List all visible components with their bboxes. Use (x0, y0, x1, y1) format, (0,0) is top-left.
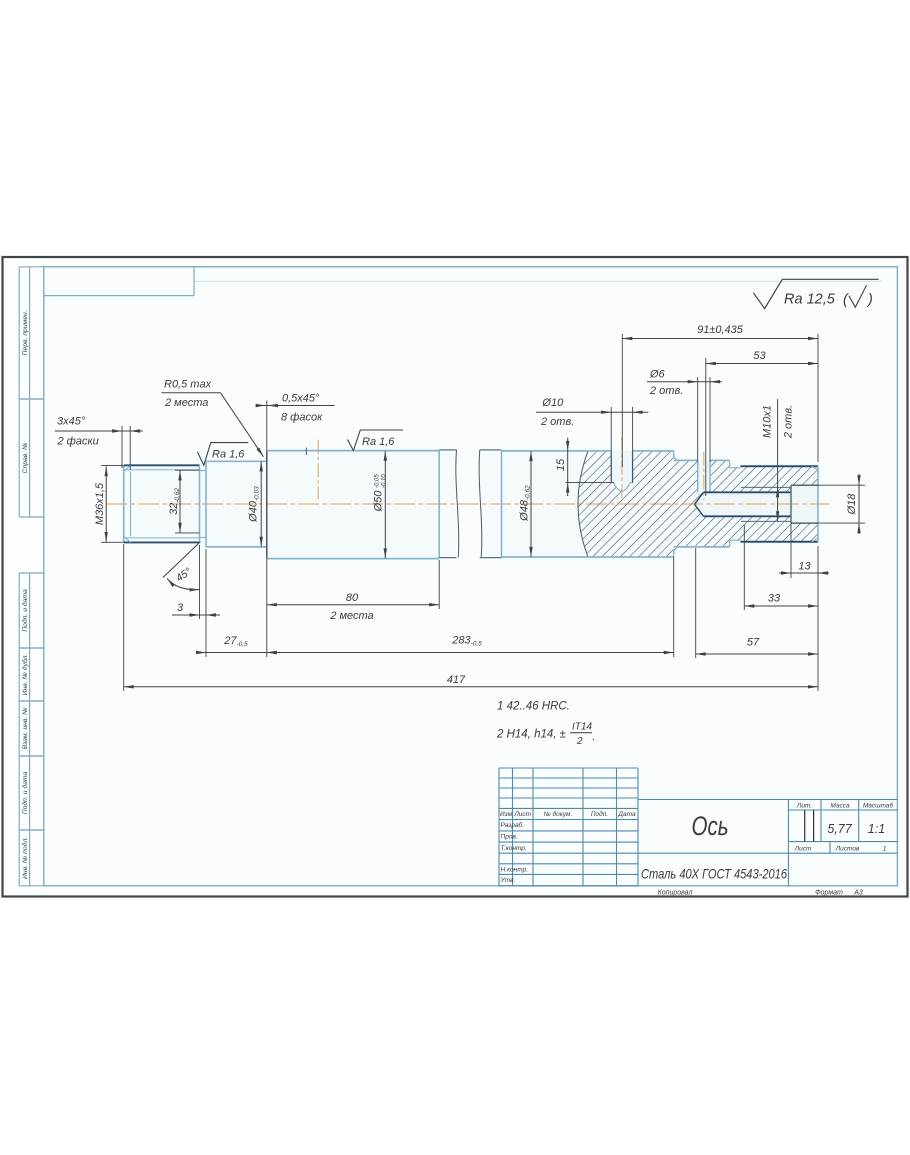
svg-text:Лит.: Лит. (796, 803, 812, 810)
svg-text:91±0,435: 91±0,435 (697, 324, 744, 336)
svg-text:2 отв.: 2 отв. (540, 416, 574, 428)
frame column box Подп. и дата (19, 573, 44, 648)
svg-text:Подп. и дата: Подп. и дата (21, 589, 29, 632)
Ø10 radial hole (611, 451, 632, 491)
svg-text:Изм: Изм (500, 811, 513, 818)
svg-text:Подп. и дата: Подп. и дата (21, 772, 29, 815)
dimension Ø48-0.62 (519, 451, 533, 557)
fillet note R0,5 max 2 места (162, 379, 265, 458)
svg-text:2 отв.: 2 отв. (783, 405, 795, 439)
svg-text:-0,10: -0,10 (381, 474, 387, 488)
svg-text:0,5х45°: 0,5х45° (282, 393, 320, 405)
dimension Ø50 -0.05/-0.10 (373, 451, 388, 559)
svg-text:2 отв.: 2 отв. (649, 385, 683, 397)
dimension M10x1 2 holes (762, 399, 795, 521)
Ø48 section (502, 451, 674, 557)
local section break boundary (578, 451, 588, 557)
svg-text:15: 15 (555, 458, 567, 471)
frame column box Справ. № (19, 399, 44, 517)
frame column box Инв. № подл. (19, 830, 44, 886)
top-left designation box (44, 267, 194, 296)
technical notes (496, 701, 596, 748)
Ø50 journal section (267, 451, 439, 559)
svg-text:Ra 1,6: Ra 1,6 (212, 449, 245, 461)
svg-text:Листов: Листов (835, 846, 860, 853)
shoulder step Ø40/Ø50 (266, 451, 268, 559)
svg-text:Утв.: Утв. (500, 877, 516, 884)
top edge over section (588, 450, 611, 452)
svg-text:Ø10: Ø10 (541, 397, 564, 409)
svg-text:Подп.: Подп. (591, 810, 608, 818)
frame column box Перв. примен. (19, 267, 44, 399)
dimension 27-0.5 (196, 549, 277, 657)
svg-text:Ø6: Ø6 (649, 368, 666, 380)
bottom margin texts (658, 890, 863, 897)
centerline of Ø6 hole (703, 452, 705, 501)
dimension 32-0.62 (168, 470, 200, 533)
title block header texts (500, 802, 894, 885)
svg-text:2: 2 (576, 736, 583, 747)
dimension 283-0.5 (267, 557, 674, 657)
roughness Ra 1,6 on thread (198, 443, 249, 466)
svg-text:1 42..46 HRC.: 1 42..46 HRC. (497, 701, 570, 713)
svg-text:Инв. № подл.: Инв. № подл. (21, 837, 29, 879)
general roughness Ra 12,5 (753, 279, 878, 308)
svg-text:Копировал: Копировал (658, 890, 693, 897)
dimension 80 2 places (267, 560, 439, 622)
break line right (479, 450, 482, 558)
M10x1 axial hole (695, 487, 792, 521)
svg-text:Сталь 40Х ГОСТ 4543-2016: Сталь 40Х ГОСТ 4543-2016 (641, 866, 787, 882)
shaft axis centerline (106, 503, 830, 505)
svg-text:Масштаб: Масштаб (863, 802, 894, 810)
svg-text:Лист: Лист (794, 846, 812, 853)
svg-text:): ) (866, 292, 873, 308)
Ø40 neck section (206, 461, 267, 547)
roughness Ra 1,6 on Ø50 (348, 430, 404, 451)
svg-text:57: 57 (747, 637, 760, 649)
svg-text:2 места: 2 места (329, 610, 373, 622)
Ø6 radial hole (698, 460, 710, 492)
dimension Ø10 2 holes (536, 397, 648, 483)
svg-text:R0,5 max: R0,5 max (164, 379, 212, 391)
shaft outline at break stubs (439, 450, 501, 558)
dimension 13 (779, 486, 829, 578)
dimension 417 overall (124, 544, 818, 691)
drawing frame (44, 267, 898, 886)
svg-text:3х45°: 3х45° (57, 416, 86, 428)
chamfer note 0,5x45° 8 фасок (256, 393, 335, 451)
centerline of Ø10 hole (621, 437, 623, 500)
svg-text:2 H14, h14, ±: 2 H14, h14, ± (496, 729, 566, 741)
svg-text:Ø18: Ø18 (846, 493, 858, 516)
break line left (456, 450, 459, 558)
svg-text:Ось: Ось (692, 811, 729, 841)
svg-text:Масса: Масса (830, 803, 850, 810)
svg-text:8 фасок: 8 фасок (281, 412, 323, 424)
dimension 53 (706, 350, 818, 496)
dimension Ø6 2 holes (647, 368, 722, 462)
material Сталь 40Х ГОСТ 4543-2016 (641, 866, 787, 882)
svg-text:IT14: IT14 (572, 722, 592, 733)
svg-text:Ø50: Ø50 (373, 490, 385, 513)
svg-text:5,77: 5,77 (827, 822, 852, 836)
title block grid (499, 768, 897, 886)
dimension 33 (744, 525, 818, 610)
svg-text:33: 33 (768, 593, 781, 605)
svg-text:Пров.: Пров. (501, 834, 518, 841)
fold crease line (194, 280, 882, 282)
svg-text:80: 80 (346, 592, 359, 604)
svg-text:Лист: Лист (513, 811, 531, 818)
svg-text:1: 1 (883, 846, 887, 853)
vertical centerline at Ø50 journal (317, 440, 319, 500)
svg-text:1:1: 1:1 (868, 822, 885, 836)
dimension Ø40-0.03 (248, 462, 263, 547)
middle section (674, 460, 730, 547)
svg-text:Справ. №: Справ. № (22, 443, 29, 474)
svg-text:А3: А3 (853, 890, 863, 897)
edge tick (305, 448, 307, 456)
svg-text:417: 417 (447, 674, 466, 686)
dimension 3 groove width (172, 545, 220, 619)
dimension Ø18 (791, 474, 865, 534)
svg-text:Разраб.: Разраб. (501, 821, 525, 829)
dimension 91±0,435 (622, 324, 818, 467)
step Ø48 to middle section (674, 451, 678, 557)
thread undercut groove (200, 461, 207, 547)
chamfer note 3x45° 2 фаски (55, 416, 143, 471)
svg-text:13: 13 (798, 561, 811, 573)
svg-text:Т.контр.: Т.контр. (501, 845, 527, 852)
mass and scale values (827, 822, 885, 836)
svg-text:.: . (593, 731, 596, 743)
section hatching (578, 451, 818, 557)
svg-text:Формат: Формат (815, 890, 843, 897)
part name Ось (692, 811, 729, 841)
frame column box Инв. № дубл. (19, 648, 44, 701)
svg-text:Инв. № дубл.: Инв. № дубл. (21, 653, 29, 695)
Ø18 counterbore (791, 485, 818, 523)
thread relief groove right (730, 460, 741, 547)
svg-text:Ra 1,6: Ra 1,6 (362, 436, 395, 448)
angle 45° callout (163, 542, 201, 592)
dimension 15 hole depth (555, 438, 614, 496)
M36 threaded end section (124, 465, 200, 542)
svg-text:Дата: Дата (617, 811, 636, 818)
svg-text:Взам. инв. №: Взам. инв. № (22, 707, 29, 749)
svg-text:53: 53 (753, 350, 766, 362)
svg-text:М10х1: М10х1 (762, 405, 774, 438)
svg-text:Ra 12,5: Ra 12,5 (784, 292, 836, 308)
svg-text:-0,05: -0,05 (374, 474, 380, 488)
svg-text:Перв. примен.: Перв. примен. (22, 310, 29, 355)
svg-text:М36х1,5: М36х1,5 (94, 482, 106, 525)
svg-text:2 фаски: 2 фаски (57, 436, 99, 448)
Лит sub-dividers (805, 810, 814, 842)
sheet outer border (3, 257, 908, 897)
svg-text:Н.контр.: Н.контр. (501, 867, 529, 874)
frame column box Взам. инв. № (19, 701, 44, 756)
svg-text:2 места: 2 места (164, 397, 208, 409)
dimension 57 (696, 546, 818, 691)
svg-text:№ докум.: № докум. (544, 810, 573, 818)
frame column box Подп. и дата (19, 756, 44, 830)
svg-text:3: 3 (177, 602, 184, 614)
right end section (741, 466, 819, 542)
shaft body tint (124, 450, 818, 559)
dimension M36x1,5 (94, 465, 124, 542)
